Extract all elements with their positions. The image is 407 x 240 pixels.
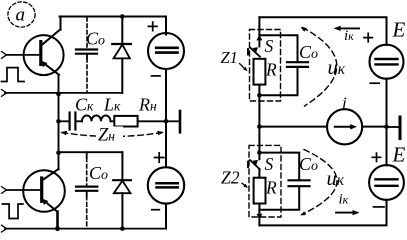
wire node to terminal: [166, 120, 179, 122]
source E1 right bars: [376, 58, 398, 60]
capacitor Co2 dashed lead upper: [86, 158, 88, 186]
diode VD1 triangle: [114, 45, 130, 59]
svg-text:E: E: [392, 18, 406, 42]
wire branch bottom: [259, 67, 297, 95]
transistor VT2 emitter arrow: [42, 199, 48, 205]
capacitor Co1r plates: [287, 61, 308, 63]
svg-text:Z1: Z1: [221, 48, 238, 67]
svg-text:Zн: Zн: [98, 126, 115, 146]
wire E1-E2 left vertical: [165, 70, 167, 167]
resistor R2 box: [254, 178, 266, 204]
capacitor Co2r plates: [289, 179, 310, 181]
transistor VT1 base bar: [39, 42, 42, 65]
diode VD2 lead upper: [121, 152, 123, 180]
source E2 left bars: [157, 182, 178, 185]
Zn arrowhead left: [61, 131, 68, 135]
svg-text:uк: uк: [327, 168, 345, 190]
plus sign E2 left: [155, 153, 164, 162]
uk arc bottom arrowhead: [300, 211, 306, 215]
capacitor Co2 dashed lead lower: [86, 196, 88, 228]
svg-text:S: S: [265, 36, 274, 56]
source E2 left lead bottom: [165, 204, 167, 229]
wire right vertical: [386, 79, 388, 166]
input arrow terminal 3: [2, 187, 7, 194]
figure label (a) dashed circle: [8, 2, 35, 27]
transistor VT1 emitter: [42, 62, 59, 75]
wire emitter drop VT2: [56, 212, 59, 229]
wire emitter-collector spine: [58, 75, 60, 170]
inductor Lk: [82, 115, 111, 121]
svg-text:S: S: [265, 154, 274, 174]
wire Ck to Lk: [76, 120, 82, 122]
diode VD1 lead upper: [121, 17, 123, 45]
capacitor Co1 dashed lead lower: [86, 59, 88, 93]
label Zn background: [96, 127, 123, 143]
transistor VT2 collector: [43, 169, 59, 180]
switch S1 arrowhead: [252, 47, 258, 52]
current arrow up on spine: [256, 35, 262, 41]
diode VD1 lead lower: [121, 58, 123, 93]
Z1 pointer arrowhead: [243, 67, 247, 71]
Zn arrowhead right: [157, 131, 164, 135]
terminal bar left: [179, 111, 182, 132]
Zn dashed arrow arc: [62, 133, 162, 137]
source E2 right circle: [369, 165, 404, 200]
transistor VT2 base lead: [6, 189, 40, 191]
input arrow terminal 1: [2, 52, 7, 59]
wire spine loop2: [258, 153, 260, 160]
wire Rn to node: [138, 120, 166, 122]
svg-text:a: a: [16, 5, 26, 26]
transistor VT2 circle: [23, 170, 65, 212]
resistor R1 box: [254, 59, 266, 85]
ik arrow bottom: [336, 212, 354, 214]
diode VD2 lead lower: [121, 193, 123, 228]
capacitor Ck plates: [68, 113, 70, 130]
wire top rail: [60, 17, 167, 34]
junction dot loop bottom: [257, 93, 262, 98]
minus sign E2 right: [374, 206, 385, 208]
junction dot diode-rail: [120, 14, 125, 19]
wire bottom rail right: [259, 200, 386, 226]
capacitor Co2 plates: [76, 186, 97, 188]
source E2 right bars: [376, 178, 398, 180]
capacitor Co2 stub bottom: [86, 191, 88, 196]
switch S1 blade: [250, 47, 260, 56]
wire terminal stub right: [387, 126, 399, 128]
transistor VT2 emitter: [43, 200, 57, 212]
capacitor Co1 plates: [76, 48, 97, 50]
pulse symbol bottom: [2, 204, 23, 219]
minus sign E1 left: [152, 75, 161, 77]
Z2 pointer line: [242, 183, 246, 186]
uk arc top: [303, 28, 337, 107]
dashed box Z2: [249, 145, 281, 217]
wire Lk to Rn: [111, 120, 115, 122]
wire branch bottom loop2: [259, 186, 299, 210]
capacitor Co1 dashed lead upper: [86, 18, 88, 49]
junction dot spine y121: [56, 119, 61, 124]
current source arrow: [335, 126, 351, 128]
junction dot emitter-bottom rail: [55, 226, 60, 231]
current source circle: [327, 109, 362, 144]
plus sign E1 left: [148, 22, 157, 31]
minus sign E1 right: [370, 82, 379, 84]
svg-text:iк: iк: [344, 28, 354, 44]
wire collector riser: [60, 17, 62, 30]
wire mid line: [59, 151, 123, 153]
junction dot right mid: [384, 124, 389, 129]
dashed box Z1: [250, 30, 281, 102]
wire mid line right right part: [362, 126, 386, 128]
transistor VT1 circle: [24, 35, 64, 75]
wire spine R1 to mid: [258, 85, 260, 153]
wire to Ck: [59, 120, 69, 122]
junction dot spine y153: [56, 150, 61, 155]
wire mid line right left part: [259, 126, 327, 128]
svg-text:E: E: [392, 143, 406, 167]
svg-text:Z2: Z2: [221, 168, 240, 188]
junction dot spine y94: [56, 92, 61, 97]
diode VD2 triangle: [114, 181, 131, 194]
transistor VT1 base lead: [6, 54, 39, 56]
pulse symbol top: [2, 68, 25, 82]
switch S2 arrowhead: [252, 160, 258, 165]
wire branch top loop2: [259, 153, 299, 181]
source E1 left circle: [148, 33, 184, 69]
Z1 pointer line: [240, 64, 246, 70]
transistor VT1 collector: [42, 29, 61, 45]
transistor VT1 emitter arrow: [41, 61, 47, 67]
switch S2 blade: [250, 160, 260, 169]
terminal bar right: [399, 117, 402, 139]
transistor VT2 base bar: [40, 178, 43, 201]
ik arrow bottom head: [353, 210, 360, 215]
wire top rail right: [259, 17, 386, 45]
source E1 left bars: [156, 46, 177, 49]
junction dot spine mid: [257, 124, 262, 129]
Z2 pointer arrowhead: [243, 184, 248, 188]
uk arc bottom: [302, 150, 337, 215]
capacitor Co2 stub top: [86, 152, 88, 158]
minus sign E2 left: [152, 209, 160, 211]
svg-text:R: R: [265, 60, 277, 80]
wire branch top: [259, 35, 297, 62]
capacitor Co1 stub: [86, 54, 88, 59]
current arrow down on spine: [257, 214, 263, 220]
junction dot load-right: [164, 119, 169, 124]
wire bottom rail: [5, 228, 166, 230]
source E1 left lead top: [165, 33, 167, 34]
input arrow terminal 2: [2, 90, 7, 97]
junction dot spine loop2 top: [257, 150, 262, 155]
plus sign E2 right: [372, 153, 380, 161]
svg-text:uк: uк: [328, 57, 346, 79]
svg-text:iк: iк: [339, 192, 349, 208]
svg-text:i: i: [342, 94, 347, 113]
wire line y93: [5, 92, 122, 94]
ik arrow top: [338, 27, 359, 29]
ik arrow top head: [334, 26, 341, 31]
junction dot diode-bottom rail: [120, 226, 125, 231]
source E2 left circle: [148, 167, 184, 203]
resistor Rn box: [114, 116, 137, 127]
switch S2 contact tick: [247, 162, 249, 168]
source E1 right circle: [370, 45, 404, 79]
diode VD1 cathode bar: [112, 43, 131, 45]
plus sign E1 right: [364, 33, 372, 41]
uk arc top arrowhead: [301, 27, 307, 31]
svg-text:R: R: [265, 178, 277, 198]
wire spine upper: [258, 17, 260, 46]
input arrow terminal 4: [2, 225, 7, 232]
diode VD2 cathode bar: [113, 179, 131, 181]
wire spine R2 to bottom rail: [258, 169, 260, 177]
switch S1 contact tick: [247, 49, 249, 55]
